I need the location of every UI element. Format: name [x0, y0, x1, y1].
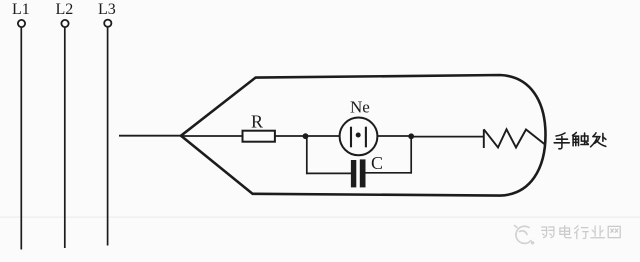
- wire node A to lamp: [306, 135, 340, 137]
- glyph 手: [554, 133, 569, 149]
- glyph 行: [575, 226, 589, 239]
- wire node B to touch resistor: [411, 136, 483, 138]
- wire L1 vertical line: [20, 27, 22, 249]
- pen body outline: [181, 75, 546, 196]
- wire resistor to node A: [275, 135, 307, 137]
- wire node A down (capacitor branch left): [306, 136, 308, 174]
- wire L3 vertical line: [107, 27, 109, 246]
- glyph 网: [608, 226, 620, 237]
- watermark logo dot: [531, 241, 534, 244]
- wire tip to resistor: [181, 135, 243, 137]
- label 手触处 (hand-touch point), drawn glyphs: [554, 133, 606, 149]
- faint scan streak: [0, 217, 640, 218]
- touch resistor zigzag (手触处 resistor): [484, 129, 545, 148]
- svg-text:Ne: Ne: [350, 97, 370, 116]
- neon lamp electrode right: [365, 127, 367, 148]
- watermark logo swirl: [515, 226, 532, 244]
- neon lamp Ne bulb circle: [340, 117, 378, 155]
- node L1 terminal circle: [18, 20, 25, 27]
- watermark text 弱电行业网, drawn glyphs: [542, 226, 621, 239]
- node L3 terminal circle: [104, 20, 111, 27]
- svg-text:R: R: [251, 111, 263, 131]
- capacitor C plate left: [351, 160, 356, 187]
- svg-text:L3: L3: [98, 1, 116, 18]
- node B junction dot: [408, 133, 414, 139]
- glyph 电: [560, 226, 571, 238]
- wire branch bottom left to capacitor: [306, 172, 351, 174]
- neon lamp electrode left: [350, 127, 352, 148]
- wire probe lead (left of pen tip): [119, 135, 181, 137]
- wire branch right up to node B: [410, 136, 412, 174]
- svg-text:L1: L1: [12, 1, 30, 18]
- glyph 弱: [542, 227, 554, 238]
- glyph 触: [573, 133, 589, 146]
- svg-text:C: C: [371, 153, 383, 173]
- glyph 处: [591, 133, 606, 147]
- wire lamp to node B: [377, 135, 412, 137]
- wire capacitor to branch right: [366, 172, 413, 174]
- node A junction dot: [303, 133, 309, 139]
- capacitor C plate right: [360, 159, 366, 187]
- resistor R body: [243, 131, 275, 142]
- node L2 terminal circle: [61, 20, 68, 27]
- wire L2 vertical line: [64, 27, 66, 248]
- neon lamp center dot: [356, 133, 361, 138]
- svg-text:L2: L2: [56, 1, 74, 18]
- glyph 业: [591, 226, 605, 238]
